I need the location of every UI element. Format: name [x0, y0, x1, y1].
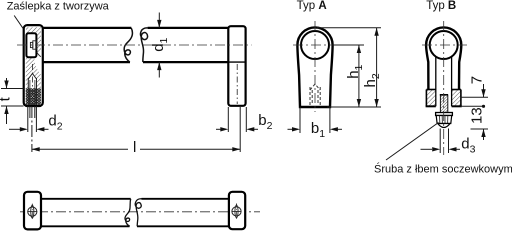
svg-text:h1: h1: [345, 64, 365, 78]
svg-text:Zaślepka z tworzywa: Zaślepka z tworzywa: [7, 0, 110, 12]
svg-text:l: l: [133, 139, 136, 156]
svg-text:13: 13: [468, 107, 485, 124]
svg-text:d3: d3: [461, 136, 475, 156]
svg-text:h2: h2: [362, 73, 382, 87]
svg-text:b1: b1: [311, 120, 325, 140]
svg-text:7: 7: [468, 76, 485, 84]
svg-text:Śruba z łbem soczewkowym: Śruba z łbem soczewkowym: [374, 163, 512, 176]
svg-text:Typ A: Typ A: [297, 0, 327, 12]
svg-text:Typ B: Typ B: [426, 0, 456, 12]
svg-text:t: t: [0, 96, 14, 101]
svg-text:b2: b2: [258, 112, 272, 132]
svg-text:d2: d2: [48, 112, 62, 132]
